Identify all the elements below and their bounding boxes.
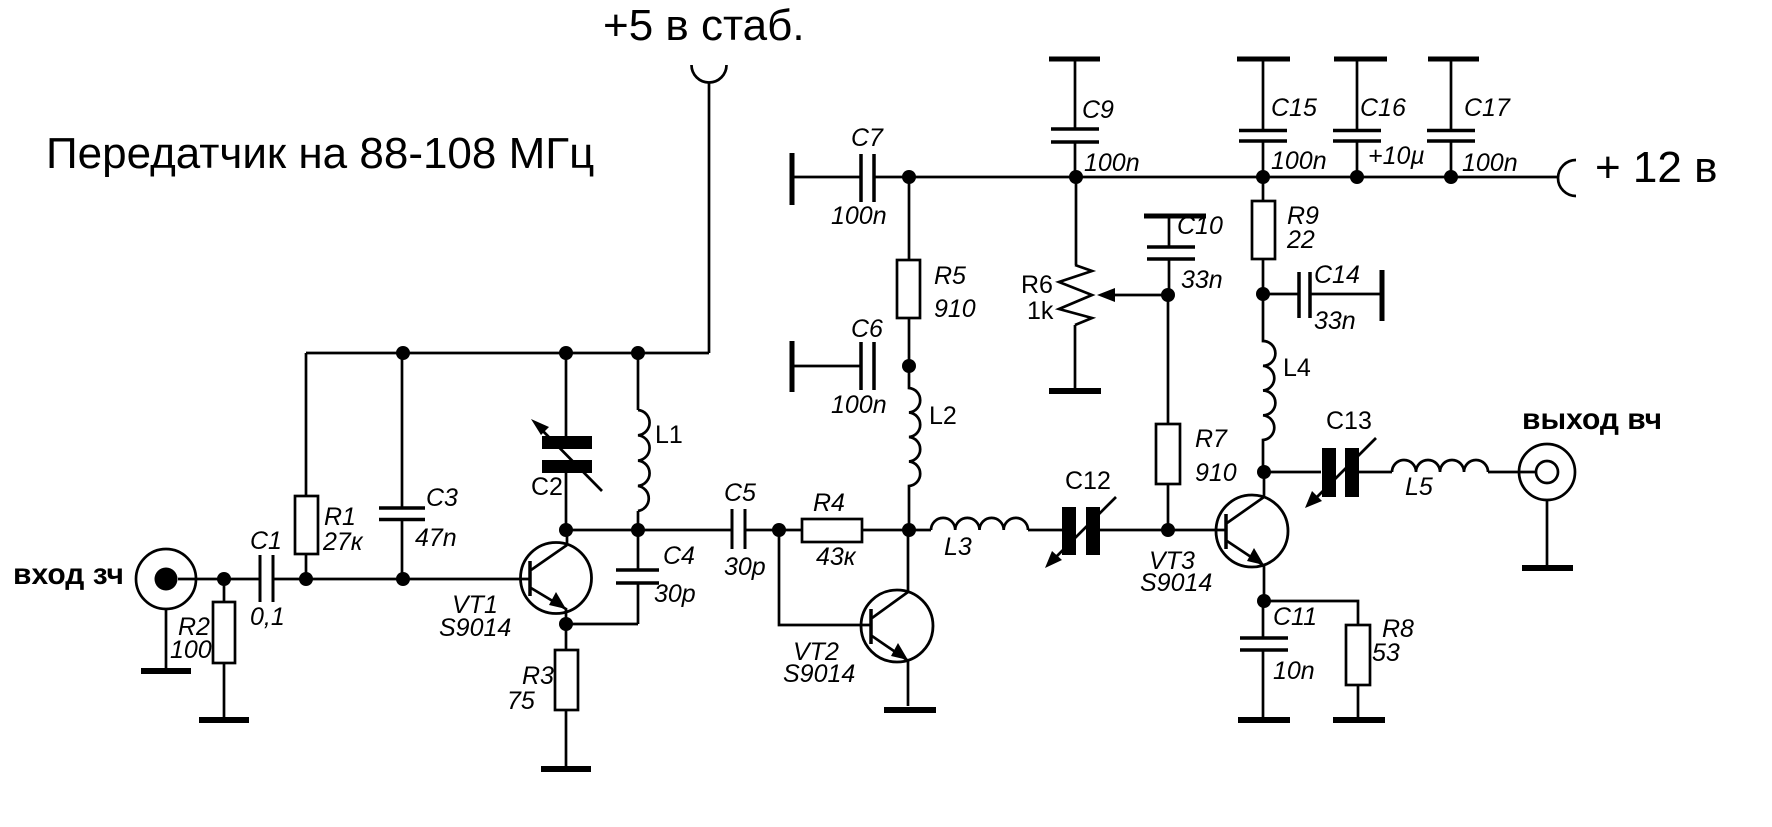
inductor L4: [1263, 294, 1275, 472]
node R9 / C14 / L4: [1256, 287, 1270, 301]
svg-text:+10µ: +10µ: [1368, 142, 1425, 170]
node VT3 base / R7: [1161, 523, 1175, 537]
wire C16 terminal to plates: [1356, 59, 1359, 131]
ground VT2: [884, 707, 936, 713]
svg-text:S9014: S9014: [1140, 569, 1212, 597]
wire input connector to ground: [165, 610, 168, 668]
wire C5 to R4: [745, 529, 802, 532]
wire VT2 base: [779, 530, 871, 625]
node base row / R1: [299, 572, 313, 586]
wire C1 to VT1 base: [273, 578, 530, 581]
svg-text:L5: L5: [1405, 473, 1433, 501]
wire rail to R1: [305, 353, 308, 496]
wire node to C14 plates: [1263, 293, 1299, 296]
capacitor C3: [379, 508, 425, 520]
svg-text:R5: R5: [934, 262, 966, 290]
wire +5V connector to top rail: [708, 82, 711, 353]
svg-text:C12: C12: [1065, 467, 1111, 495]
svg-text:R4: R4: [813, 489, 845, 517]
svg-text:30p: 30p: [724, 553, 766, 581]
svg-text:47n: 47n: [415, 524, 457, 552]
wire C11 to ground: [1262, 650, 1265, 717]
wire C15 terminal to plates: [1262, 59, 1265, 131]
node top rail / L1: [631, 346, 645, 360]
wire C6 terminal to plates: [792, 365, 861, 368]
wire +12V rail: [874, 176, 1559, 179]
resistor R4: [802, 519, 862, 542]
svg-text:S9014: S9014: [783, 660, 855, 688]
node top rail / C2: [559, 346, 573, 360]
svg-text:C9: C9: [1082, 96, 1114, 124]
wire R8 to ground: [1357, 685, 1360, 717]
wire R5 to C6 node: [908, 318, 911, 366]
transistor VT2: [861, 530, 933, 662]
wire L1 to collector node: [637, 511, 640, 530]
wire C2 to collector node: [565, 471, 568, 530]
wire rail to R5: [908, 177, 911, 260]
wire input to C1: [178, 578, 260, 581]
svg-text:C17: C17: [1464, 94, 1511, 122]
svg-text:C4: C4: [663, 542, 695, 570]
wire C16 to rail: [1356, 141, 1359, 177]
input connector: [136, 549, 196, 609]
wire VT3 emitter to R8: [1264, 601, 1358, 625]
wire R9 to node: [1262, 259, 1265, 294]
capacitor C10 terminal: [1144, 214, 1206, 219]
node top rail / C3: [396, 346, 410, 360]
capacitor C9 terminal: [1049, 57, 1100, 62]
wire R1 to base node: [305, 554, 308, 579]
svg-text:C2: C2: [531, 473, 563, 501]
wire top +5V rail: [306, 352, 709, 355]
capacitor C7 terminal: [790, 153, 795, 205]
wire C17 to rail: [1450, 141, 1453, 177]
wire rail to C2: [565, 353, 568, 437]
node C10 / R6 wiper / R7: [1161, 288, 1175, 302]
ground R3: [541, 766, 591, 772]
node rail / C15 / R9: [1256, 170, 1270, 184]
capacitor C4: [616, 570, 659, 583]
capacitor C15 terminal: [1237, 57, 1290, 62]
svg-text:100n: 100n: [831, 391, 887, 419]
node L1 / C4: [631, 523, 645, 537]
ground R8: [1333, 717, 1385, 723]
capacitor C6 terminal: [790, 341, 795, 392]
capacitor C10: [1147, 247, 1195, 259]
ground input: [141, 668, 191, 674]
svg-text:+5 в стаб.: +5 в стаб.: [603, 1, 805, 50]
ground output: [1522, 565, 1573, 571]
capacitor C11: [1240, 638, 1288, 650]
capacitor C7: [861, 154, 874, 202]
svg-text:C7: C7: [851, 124, 884, 152]
variable capacitor C12: [1062, 507, 1076, 555]
svg-text:22: 22: [1286, 226, 1315, 254]
svg-text:R3: R3: [522, 662, 554, 690]
svg-text:10n: 10n: [1273, 657, 1315, 685]
svg-text:75: 75: [507, 687, 535, 715]
svg-text:L2: L2: [929, 402, 957, 430]
wire rail to L1: [637, 353, 640, 410]
wire R3 to ground: [565, 710, 568, 766]
transistor VT1: [521, 530, 592, 614]
node C5 / VT2 base: [772, 523, 786, 537]
svg-text:100n: 100n: [1084, 149, 1140, 177]
node rail / C9 / R6: [1069, 170, 1083, 184]
node input / R2: [217, 572, 231, 586]
svg-text:вход зч: вход зч: [13, 558, 124, 591]
wire C15 to rail: [1262, 141, 1265, 177]
svg-text:C1: C1: [250, 527, 282, 555]
capacitor C5: [732, 509, 745, 549]
wire rail to C3: [401, 353, 404, 508]
wire L3 to C12: [1028, 529, 1062, 532]
capacitor C14 terminal: [1380, 270, 1385, 321]
svg-text:Передатчик на 88-108 МГц: Передатчик на 88-108 МГц: [46, 129, 594, 178]
wire R2 to ground: [223, 663, 226, 718]
wire emitter node to C11: [1262, 601, 1265, 638]
resistor R7: [1156, 424, 1180, 484]
wire C4 to collector node: [637, 530, 640, 570]
wire VT1 collector row: [566, 529, 732, 532]
R6 wiper arrow: [1112, 294, 1168, 297]
wire node to R2: [223, 579, 226, 602]
svg-text:C3: C3: [426, 484, 458, 512]
wire output connector to ground: [1546, 500, 1549, 565]
svg-text:910: 910: [1195, 459, 1237, 487]
resistor R5: [897, 260, 920, 318]
wire C3 to base node: [401, 519, 404, 579]
wire R7 to VT3 base node: [1167, 484, 1170, 530]
svg-text:30p: 30p: [654, 580, 696, 608]
svg-text:43к: 43к: [816, 543, 857, 571]
wire VT1 emitter to C4: [566, 583, 638, 624]
node R4 / L2 / VT2 collector: [902, 523, 916, 537]
node rail / C17: [1444, 170, 1458, 184]
capacitor C15: [1239, 131, 1287, 142]
svg-text:C13: C13: [1326, 407, 1372, 435]
wire rail to R9: [1262, 177, 1265, 201]
svg-text:53: 53: [1372, 639, 1400, 667]
wire R4 to L3: [862, 529, 931, 532]
inductor L3: [931, 518, 1028, 530]
wire L5 to output connector: [1488, 471, 1536, 474]
resistor R1: [295, 496, 318, 554]
wire C17 terminal to plates: [1450, 59, 1453, 131]
svg-text:L4: L4: [1283, 354, 1311, 382]
svg-text:C10: C10: [1177, 212, 1223, 240]
node VT3 emitter: [1257, 594, 1271, 608]
svg-text:33n: 33n: [1314, 307, 1356, 335]
capacitor C17 terminal: [1428, 57, 1479, 62]
wire C7 terminal to plates: [792, 176, 861, 179]
+5V connector: [692, 65, 727, 83]
ground R6: [1049, 388, 1101, 394]
wire C9 terminal to plates: [1074, 59, 1077, 129]
inductor L1: [638, 410, 650, 511]
svg-text:L3: L3: [944, 533, 972, 561]
wire C10 to node: [1168, 259, 1171, 295]
node rail / R5: [902, 170, 916, 184]
inductor L5: [1392, 460, 1488, 472]
svg-text:910: 910: [934, 295, 976, 323]
svg-text:C11: C11: [1273, 603, 1317, 631]
node VT1 emitter: [559, 617, 573, 631]
ground R2: [199, 717, 249, 723]
svg-text:C15: C15: [1271, 94, 1317, 122]
capacitor C16 terminal: [1334, 57, 1387, 62]
svg-text:100n: 100n: [831, 202, 887, 230]
svg-text:R1: R1: [324, 503, 356, 531]
resistor R9: [1252, 201, 1275, 259]
svg-text:C5: C5: [724, 479, 756, 507]
resistor R2: [213, 602, 235, 663]
capacitor C9: [1051, 129, 1099, 142]
svg-text:R6: R6: [1021, 271, 1053, 299]
node rail / C16: [1350, 170, 1364, 184]
wire C12 to VT3 base: [1100, 529, 1226, 532]
svg-text:100n: 100n: [1462, 149, 1518, 177]
svg-text:S9014: S9014: [439, 614, 511, 642]
transistor VT3: [1216, 472, 1288, 567]
node R5 / C6 / L2: [902, 359, 916, 373]
wire C9 to rail: [1074, 142, 1077, 177]
ground C11: [1238, 717, 1290, 723]
variable capacitor C13: [1322, 448, 1336, 497]
wire VT3 collector row to C13: [1264, 471, 1321, 474]
wire C14 to terminal: [1310, 293, 1382, 296]
svg-text:27к: 27к: [322, 528, 364, 556]
node base row / C3: [396, 572, 410, 586]
wire C10 terminal to plates: [1168, 216, 1171, 247]
potentiometer R6: [1075, 177, 1078, 265]
node VT3 collector: [1257, 465, 1271, 479]
svg-text:100: 100: [170, 636, 212, 664]
capacitor C17: [1427, 131, 1475, 142]
output connector: [1519, 444, 1575, 500]
svg-text:33n: 33n: [1181, 266, 1223, 294]
capacitor C1: [260, 555, 273, 602]
capacitor C16: [1333, 131, 1381, 142]
+12V connector: [1558, 160, 1576, 196]
svg-text:C6: C6: [851, 315, 883, 343]
variable capacitor C2: [542, 436, 592, 449]
svg-text:выход вч: выход вч: [1522, 403, 1662, 436]
capacitor C14: [1299, 272, 1310, 318]
inductor L2: [909, 366, 920, 530]
svg-text:100n: 100n: [1271, 147, 1327, 175]
resistor R8: [1346, 625, 1370, 685]
capacitor C6: [861, 342, 874, 390]
svg-text:1k: 1k: [1027, 297, 1054, 325]
svg-text:R7: R7: [1195, 425, 1228, 453]
wire node to R7: [1167, 295, 1170, 424]
node VT1 collector: [559, 523, 573, 537]
wire VT2 emitter to ground: [907, 660, 910, 706]
svg-text:C16: C16: [1360, 94, 1406, 122]
svg-text:+ 12 в: + 12 в: [1595, 143, 1717, 192]
svg-text:0,1: 0,1: [250, 603, 285, 631]
wire VT1 emitter to R3: [565, 608, 568, 650]
wire C13 to L5: [1356, 471, 1392, 474]
svg-text:C14: C14: [1314, 261, 1360, 289]
svg-text:L1: L1: [655, 421, 683, 449]
resistor R3: [555, 650, 578, 710]
wire VT3 emitter down to node: [1263, 565, 1266, 601]
